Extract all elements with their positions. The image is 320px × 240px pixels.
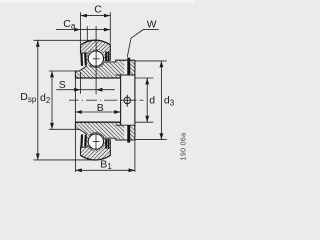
centerline <box>69 99 144 101</box>
inner ring top (hatched) <box>75 49 120 78</box>
seals top <box>80 53 83 66</box>
ball top <box>88 51 103 66</box>
d2 dimension <box>51 71 53 129</box>
d3 dimension <box>160 61 162 140</box>
outer ring top (hatched, spherical OD) <box>81 40 111 68</box>
S dimension <box>56 89 114 91</box>
B dimension <box>75 111 120 113</box>
svg-text:190 06a: 190 06a <box>180 133 187 161</box>
arrowheads <box>81 14 87 18</box>
seals bottom <box>80 134 83 147</box>
svg-text:d: d <box>149 94 155 106</box>
W leader <box>127 30 158 57</box>
ball bottom <box>88 134 103 149</box>
svg-text:B: B <box>97 102 104 114</box>
Ca dimension line <box>56 29 110 31</box>
C dimension <box>81 15 111 17</box>
svg-text:C: C <box>94 4 102 16</box>
d dimension <box>146 78 148 122</box>
collar bottom <box>116 125 135 140</box>
svg-text:W: W <box>147 20 157 31</box>
svg-text:S: S <box>59 79 66 91</box>
outer ring bottom <box>81 132 111 160</box>
inner ring right face / collar right face verticals through bore opening <box>120 75 122 126</box>
Dsp dimension <box>37 40 39 160</box>
collar top (hatched with slot and black screw bar) <box>116 60 135 75</box>
bore lines <box>75 77 120 79</box>
inner ring bottom <box>75 122 120 151</box>
set screw position cross (circle with crosshair on collar) <box>124 97 131 104</box>
raceway circle around top ball <box>87 49 105 67</box>
B1 dimension <box>75 169 134 171</box>
